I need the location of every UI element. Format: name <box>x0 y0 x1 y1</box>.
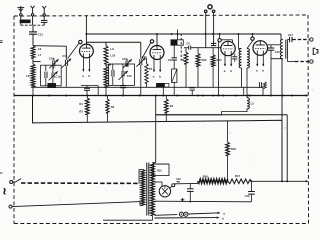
svg-text:R16: R16 <box>203 175 209 179</box>
svg-text:a: a <box>153 75 155 79</box>
svg-text:b: b <box>222 217 224 221</box>
wire E down <box>20 16 22 20</box>
svg-text:R7: R7 <box>149 67 153 71</box>
oscillator coil box <box>177 30 179 40</box>
filament line b <box>154 217 216 219</box>
coil L9 L10 upper <box>104 46 108 64</box>
capacitor C14 <box>112 64 114 70</box>
AC symbol <box>4 188 6 194</box>
svg-text:L9: L9 <box>110 47 114 51</box>
trimmer capacitor C1b <box>126 58 128 61</box>
coil L1b block <box>157 83 165 87</box>
capacitor C18b near V3 <box>232 56 237 58</box>
svg-text:L7: L7 <box>38 53 42 57</box>
grid cap V2 <box>150 40 153 43</box>
rectifier tube V5 <box>159 186 170 197</box>
terminal A1 <box>31 14 33 16</box>
small blob on sub-bus <box>48 83 56 87</box>
svg-text:R5: R5 <box>181 58 185 62</box>
phone jack terminals (top) <box>205 13 207 48</box>
tube V3 <box>221 41 235 55</box>
filament line a <box>188 213 217 214</box>
coil lower stage2 <box>105 64 107 67</box>
output transformer primary <box>280 34 282 40</box>
cap on sub-bus 1 <box>86 85 88 88</box>
svg-text:a: a <box>82 74 84 78</box>
filament leads V4 <box>256 51 258 66</box>
svg-text:a: a <box>223 212 225 216</box>
IF transformer T2 windings <box>239 49 241 69</box>
svg-text:C1b: C1b <box>122 57 127 61</box>
speaker terminal top <box>310 38 313 41</box>
svg-text:R13: R13 <box>217 58 222 62</box>
left loop wire <box>33 96 283 182</box>
AC terminal upper <box>10 181 13 184</box>
chassis dashed border left <box>13 16 15 224</box>
speaker coupling capacitor C17 <box>287 39 289 41</box>
svg-text:L10: L10 <box>110 54 115 58</box>
B+ raw line <box>175 182 198 184</box>
tap wire <box>32 58 34 64</box>
filament leads V1 <box>82 53 84 71</box>
phones symbol <box>313 48 315 54</box>
svg-text:C3: C3 <box>168 58 172 62</box>
scan speckles <box>22 10 314 200</box>
pilot lamps <box>154 214 177 217</box>
cap on sub-bus 2 <box>122 84 124 86</box>
switch S1 <box>13 181 16 183</box>
chassis dashed border top <box>14 15 308 16</box>
svg-text:b: b <box>159 75 161 79</box>
chassis stub <box>103 216 152 221</box>
svg-text:C17: C17 <box>288 33 293 37</box>
capacitor C13 in box <box>45 65 47 71</box>
grid cap V1 <box>79 40 82 43</box>
capacitor C18 on detector line <box>211 42 216 44</box>
variable capacitor C1a <box>52 65 54 73</box>
wire to C11 <box>32 25 34 31</box>
terminal E <box>20 14 22 16</box>
bus junction dots <box>32 95 34 97</box>
capacitor C11 <box>29 31 37 33</box>
capacitor C12 (antenna series) <box>41 19 48 21</box>
speaker lead bottom <box>286 59 288 62</box>
trimmer capacitor C10a <box>53 58 55 60</box>
coil L8 (antenna coil lower) <box>31 64 35 87</box>
resistor R18 divider <box>227 121 229 142</box>
grid lead diagonal V2 <box>142 43 151 59</box>
filament leads V2 <box>153 55 155 72</box>
svg-text:R3: R3 <box>111 105 115 109</box>
minus mark <box>177 181 180 183</box>
svg-text:C1A: C1A <box>49 57 54 61</box>
wire bus to transformer <box>155 96 157 163</box>
svg-text:C16: C16 <box>275 50 280 54</box>
main ground bus <box>14 95 308 97</box>
wire T2 to V4 grid <box>247 41 253 49</box>
box stage2 <box>109 64 135 85</box>
dashed link wire <box>21 24 44 26</box>
choke L5 <box>246 96 248 98</box>
cathode sub-bus <box>33 86 263 88</box>
capacitor C4 <box>184 47 189 49</box>
svg-text:b: b <box>262 68 264 72</box>
plate lead V1 from top border <box>85 16 87 44</box>
svg-text:C4: C4 <box>186 41 190 45</box>
svg-text:R4: R4 <box>170 104 174 108</box>
svg-text:L6: L6 <box>38 47 42 51</box>
wire V3 plate to IF transformer <box>238 48 241 50</box>
svg-text:R2: R2 <box>79 109 83 113</box>
svg-text:C10: C10 <box>62 54 67 58</box>
dashed speaker lead top <box>292 39 309 41</box>
plate lead V2 <box>156 34 158 45</box>
power transformer secondary <box>150 163 154 216</box>
chassis dashed border right <box>307 15 310 224</box>
svg-text:C33: C33 <box>176 178 181 181</box>
output line B+ <box>252 180 308 182</box>
resistor R3 <box>107 96 109 100</box>
svg-text:R1: R1 <box>79 102 83 106</box>
tube V4 (output) <box>253 41 268 56</box>
antenna mark A1 <box>32 8 34 13</box>
coil L6 L7 (antenna coil upper) <box>31 46 35 59</box>
svg-text:C19: C19 <box>245 194 250 198</box>
speaker terminal bottom <box>310 60 313 63</box>
resistor R1 R2 <box>86 96 88 99</box>
cap on sub-bus 3 <box>190 87 195 89</box>
AC cord dashed upper <box>21 182 139 184</box>
resistor R5 <box>185 48 187 52</box>
plus mark <box>181 199 185 201</box>
trimmer capacitor C10b <box>65 58 67 60</box>
AC lead lower <box>12 202 140 207</box>
wire from choke <box>156 109 247 115</box>
wire top row stage2 <box>105 42 107 45</box>
svg-text:R17: R17 <box>235 174 241 178</box>
filament leads V3 <box>224 51 226 66</box>
svg-text:R15: R15 <box>157 170 162 173</box>
rectifier cathode cap <box>172 184 175 187</box>
plate wire V4 <box>268 44 281 46</box>
capacitor pair under V4 <box>259 82 261 88</box>
svg-text:C15: C15 <box>127 74 132 78</box>
filter resistor R17 <box>228 179 251 184</box>
plate wire V1 to stage2 <box>86 41 140 43</box>
power transformer primary <box>141 170 145 206</box>
ground symbol <box>20 6 22 13</box>
svg-text:L5: L5 <box>251 102 255 106</box>
svg-text:a: a <box>224 69 226 73</box>
lightning arrester <box>20 20 30 23</box>
svg-text:b: b <box>88 74 90 78</box>
block with diagonal <box>172 69 177 83</box>
wire A2 down <box>43 16 45 20</box>
margin tick marks <box>0 40 3 42</box>
wire top row <box>33 45 66 48</box>
grid lead diagonal <box>68 43 79 58</box>
svg-text:b: b <box>230 69 232 73</box>
grid cap V4 <box>251 37 254 40</box>
wire A1 down <box>32 16 34 25</box>
B+ divider line <box>154 200 251 203</box>
mid horizontal line <box>156 114 288 116</box>
svg-text:C11: C11 <box>38 33 44 37</box>
svg-text:L8: L8 <box>26 74 30 78</box>
cathode resistor R7 stage2 <box>145 64 148 84</box>
output transformer core <box>285 40 287 59</box>
tube V1 <box>80 44 94 58</box>
tap to rectifier plate <box>154 181 162 183</box>
capacitor C16 plate bypass <box>270 45 272 48</box>
resistor R13 <box>212 48 214 55</box>
AC terminal lower <box>9 205 12 208</box>
box shield stage1 <box>41 65 62 86</box>
capacitor C3 <box>173 45 175 57</box>
svg-text:C1a: C1a <box>55 75 60 79</box>
variable capacitor C15 <box>122 64 124 71</box>
secondary top tap and box <box>152 162 155 164</box>
power transformer core <box>146 163 148 216</box>
tube V2 <box>150 46 164 60</box>
links sub-bus to bus <box>32 87 34 95</box>
svg-text:a: a <box>256 68 258 72</box>
divider capacitor C19 <box>251 181 253 191</box>
grid cap V3 <box>218 39 221 42</box>
svg-text:R12: R12 <box>202 58 207 62</box>
B+ supply bus <box>86 33 281 35</box>
filter resistor R16 <box>198 179 228 184</box>
svg-text:R18: R18 <box>231 147 236 151</box>
shield dashed line <box>180 34 182 60</box>
chassis dashed border bottom <box>14 223 309 225</box>
resistor R12 <box>197 48 199 54</box>
antenna mark A2 <box>43 8 45 13</box>
resistor R4 <box>165 96 167 100</box>
trimmer capacitor C16 <box>139 59 141 65</box>
terminal A2 <box>43 14 45 16</box>
filter capacitor C33 <box>189 184 191 189</box>
